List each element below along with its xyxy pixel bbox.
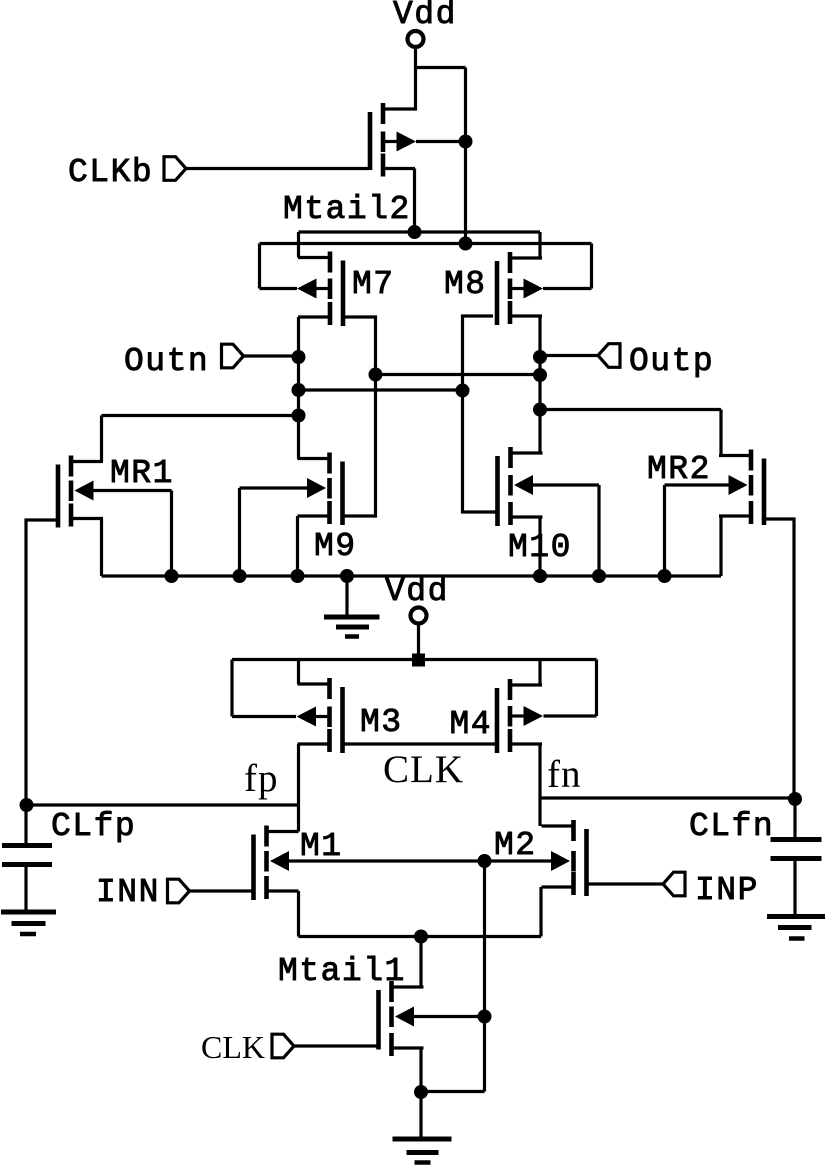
svg-text:M7: M7 [352,266,395,303]
svg-text:INP: INP [695,872,759,909]
svg-text:M3: M3 [360,704,403,741]
svg-text:M4: M4 [450,706,493,743]
svg-text:CLK: CLK [383,748,464,791]
svg-text:CLK: CLK [201,1029,265,1065]
svg-text:CLfp: CLfp [51,808,136,845]
svg-text:Outp: Outp [629,343,714,380]
svg-text:M8: M8 [444,266,487,303]
svg-text:INN: INN [96,874,160,911]
svg-text:Vdd: Vdd [385,573,449,610]
svg-text:M10: M10 [508,529,572,566]
svg-text:Mtail1: Mtail1 [278,953,406,990]
svg-text:fn: fn [547,753,582,796]
svg-text:Vdd: Vdd [393,0,457,33]
svg-text:MR2: MR2 [647,451,711,488]
svg-text:CLKb: CLKb [68,154,153,191]
svg-text:fp: fp [244,757,279,800]
svg-text:M2: M2 [494,827,537,864]
svg-text:MR1: MR1 [110,455,174,492]
svg-text:Mtail2: Mtail2 [283,191,411,228]
svg-text:CLfn: CLfn [689,808,774,845]
svg-text:M9: M9 [314,528,357,565]
svg-text:Outn: Outn [124,343,209,380]
